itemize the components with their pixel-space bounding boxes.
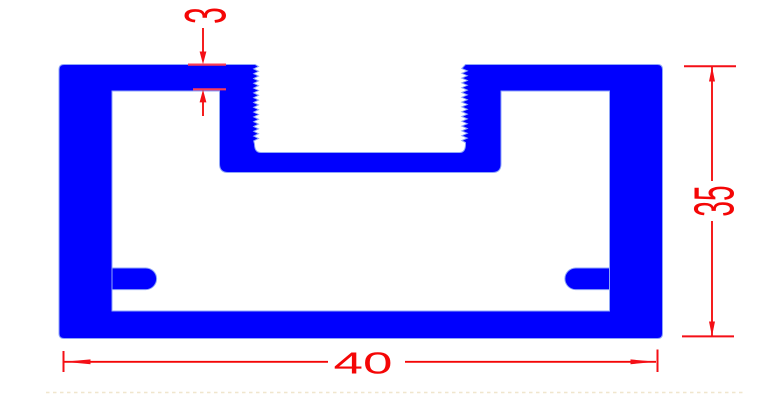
svg-text:40: 40 <box>334 346 393 380</box>
svg-text:3: 3 <box>173 7 238 24</box>
svg-text:35: 35 <box>683 185 746 216</box>
